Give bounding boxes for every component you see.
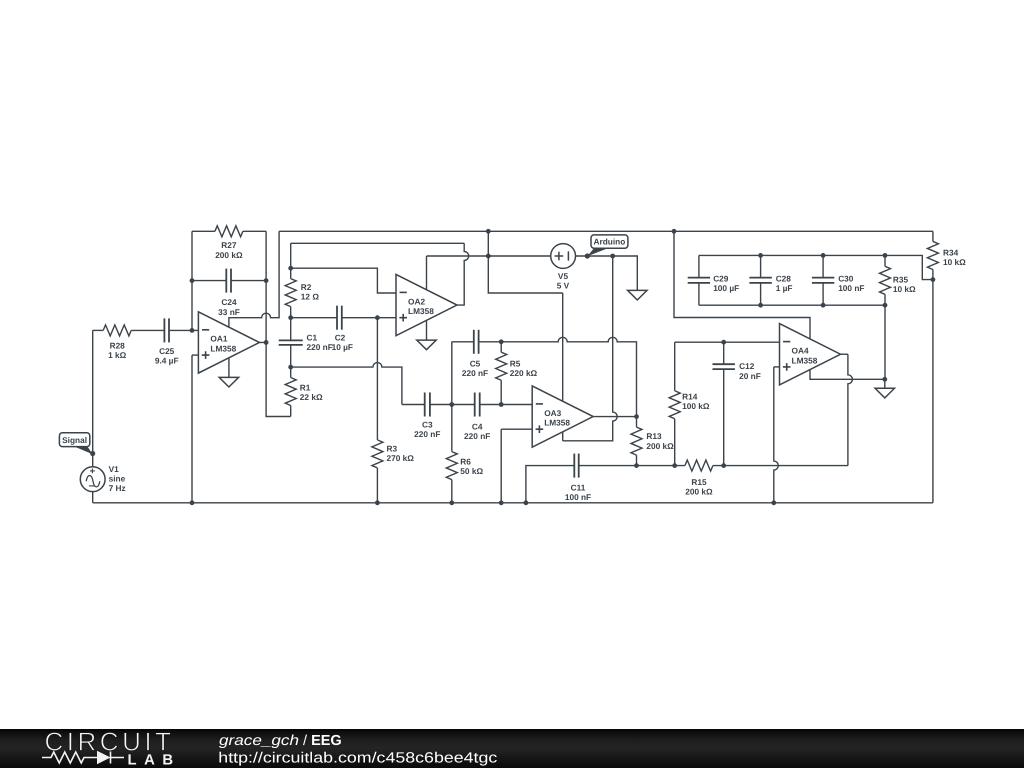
- svg-text:C5: C5: [470, 358, 481, 368]
- svg-text:R5: R5: [510, 358, 521, 368]
- svg-text:100 µF: 100 µF: [713, 283, 739, 293]
- svg-text:10 µF: 10 µF: [332, 342, 353, 352]
- svg-text:R28: R28: [110, 340, 126, 350]
- svg-text:270 kΩ: 270 kΩ: [387, 453, 415, 463]
- svg-text:33 nF: 33 nF: [218, 307, 240, 317]
- svg-text:Arduino: Arduino: [593, 237, 625, 247]
- svg-text:LM358: LM358: [792, 355, 818, 365]
- svg-text:C4: C4: [472, 421, 483, 431]
- svg-text:R35: R35: [893, 274, 909, 284]
- svg-text:OA3: OA3: [544, 408, 561, 418]
- svg-text:20 nF: 20 nF: [739, 371, 761, 381]
- svg-text:1 kΩ: 1 kΩ: [108, 350, 127, 360]
- svg-text:220 nF: 220 nF: [464, 431, 490, 441]
- svg-text:C3: C3: [422, 420, 433, 430]
- svg-text:220 kΩ: 220 kΩ: [510, 368, 538, 378]
- svg-text:R1: R1: [300, 382, 311, 392]
- svg-text:R2: R2: [301, 282, 312, 292]
- svg-text:100 nF: 100 nF: [565, 492, 591, 502]
- svg-text:R27: R27: [221, 240, 237, 250]
- svg-text:220 nF: 220 nF: [462, 368, 488, 378]
- svg-text:R14: R14: [682, 391, 698, 401]
- svg-text:OA2: OA2: [408, 296, 425, 306]
- svg-text:22 kΩ: 22 kΩ: [300, 392, 323, 402]
- svg-text:5 V: 5 V: [557, 281, 570, 291]
- svg-text:C1: C1: [307, 333, 318, 343]
- svg-text:7 Hz: 7 Hz: [109, 483, 126, 493]
- svg-text:C30: C30: [838, 273, 854, 283]
- svg-text:OA1: OA1: [210, 334, 227, 344]
- svg-text:10 kΩ: 10 kΩ: [893, 284, 916, 294]
- svg-text:grace_gch / EEG: grace_gch / EEG: [219, 733, 342, 749]
- svg-text:C24: C24: [221, 297, 237, 307]
- svg-text:9.4 µF: 9.4 µF: [155, 356, 179, 366]
- svg-text:100 kΩ: 100 kΩ: [682, 401, 710, 411]
- svg-text:100 nF: 100 nF: [838, 283, 864, 293]
- svg-text:1 µF: 1 µF: [776, 283, 793, 293]
- svg-text:LM358: LM358: [544, 418, 570, 428]
- svg-text:Signal: Signal: [62, 435, 87, 445]
- svg-text:220 nF: 220 nF: [414, 429, 440, 439]
- svg-text:R3: R3: [387, 444, 398, 454]
- svg-text:R6: R6: [460, 456, 471, 466]
- svg-text:12 Ω: 12 Ω: [301, 292, 320, 302]
- svg-text:C29: C29: [713, 273, 729, 283]
- svg-text:OA4: OA4: [792, 346, 809, 356]
- svg-text:V5: V5: [558, 271, 569, 281]
- svg-text:C28: C28: [776, 273, 792, 283]
- svg-text:50 kΩ: 50 kΩ: [460, 466, 483, 476]
- svg-text:http://circuitlab.com/c458c6be: http://circuitlab.com/c458c6bee4tgc: [218, 751, 498, 767]
- svg-text:C25: C25: [159, 346, 175, 356]
- svg-text:LM358: LM358: [210, 344, 236, 354]
- svg-text:200 kΩ: 200 kΩ: [685, 487, 713, 497]
- svg-text:R34: R34: [943, 248, 959, 258]
- svg-text:C11: C11: [571, 482, 586, 492]
- svg-text:LAB: LAB: [128, 753, 174, 768]
- svg-text:R15: R15: [691, 477, 707, 487]
- svg-text:C12: C12: [739, 361, 755, 371]
- svg-text:200 kΩ: 200 kΩ: [646, 441, 674, 451]
- svg-text:200 kΩ: 200 kΩ: [215, 250, 243, 260]
- svg-text:220 nF: 220 nF: [307, 342, 333, 352]
- svg-text:10 kΩ: 10 kΩ: [943, 257, 966, 267]
- svg-text:R13: R13: [646, 431, 662, 441]
- svg-text:C2: C2: [335, 333, 346, 343]
- svg-text:LM358: LM358: [408, 306, 434, 316]
